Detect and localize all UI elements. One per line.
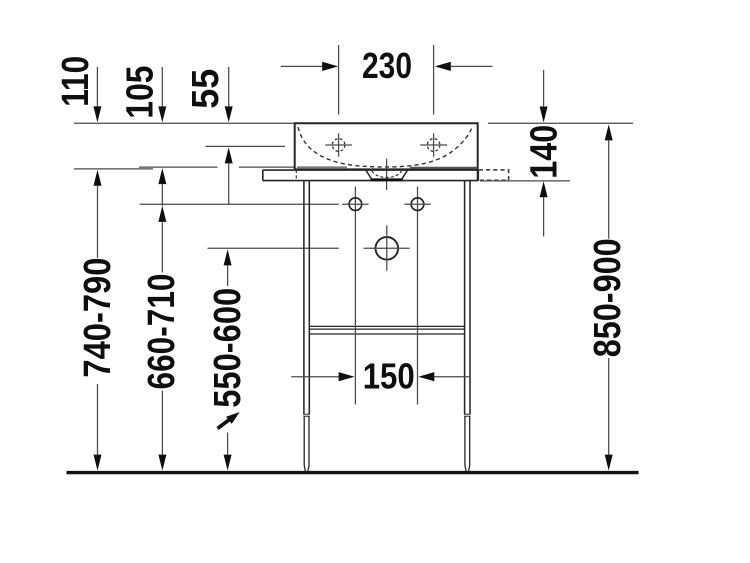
- tap deck reference line (55): [206, 145, 285, 147]
- dim 150 left arrow: [291, 372, 354, 381]
- basin outline: [295, 123, 478, 180]
- svg-text:550-600: 550-600: [207, 288, 249, 408]
- hidden basin edge left through plate: [295, 170, 297, 180]
- right leg: [464, 181, 471, 471]
- basin bottom reference line (110): [74, 168, 153, 170]
- basin inner floor edge left: [297, 166, 347, 168]
- left leg: [303, 181, 310, 471]
- dim 105 down arrow: [158, 67, 166, 122]
- svg-text:740-790: 740-790: [77, 258, 119, 378]
- svg-text:140: 140: [523, 125, 565, 179]
- svg-text:105: 105: [119, 66, 161, 119]
- mounting hole reference line (660-710): [140, 203, 339, 205]
- dim 660-710 bottom arrow: [158, 391, 166, 471]
- ground line: [67, 471, 639, 474]
- dim 230 right arrow: [435, 62, 493, 71]
- dim 110 up arrow / 740-790 top arrow: [94, 170, 102, 258]
- dim 850-900 top arrow: [605, 124, 613, 238]
- mounting hole left: [342, 198, 368, 211]
- dim 110 down arrow: [93, 67, 101, 122]
- drain hole circle: [364, 225, 410, 270]
- tap hole left: [325, 133, 352, 157]
- shelf rail: [309, 326, 464, 334]
- svg-text:55: 55: [185, 69, 227, 109]
- svg-text:230: 230: [362, 45, 412, 86]
- top reference line left segment: [74, 122, 295, 124]
- mounting hole right: [404, 198, 430, 211]
- dim 550-600 top arrow: [224, 249, 232, 286]
- dim 740-790 bottom arrow: [94, 384, 102, 471]
- svg-text:110: 110: [55, 56, 97, 107]
- dim 150 right arrow: [418, 372, 470, 381]
- dim 55 down arrow: [225, 67, 233, 122]
- drain trapezoid: [366, 170, 407, 180]
- dim 660-710 top arrow: [158, 206, 166, 273]
- hidden reference line (105): [139, 166, 295, 168]
- svg-text:150: 150: [363, 356, 415, 397]
- dim 550-600 diagonal arrow: [218, 412, 240, 429]
- dim 850-900 bottom arrow: [605, 358, 613, 471]
- drain height reference line (550-600): [208, 247, 339, 249]
- basin inner bowl hidden curve: [298, 127, 472, 167]
- dim 140 up arrow: [540, 181, 548, 236]
- dim 140 top arrow: [540, 70, 548, 123]
- svg-text:850-900: 850-900: [587, 238, 629, 357]
- console bottom reference line (140): [480, 180, 570, 182]
- dim 105 up arrow: [158, 168, 166, 206]
- tap hole right: [420, 133, 447, 157]
- console plate dashed extension: [479, 170, 509, 180]
- dim 230 left arrow: [281, 62, 339, 71]
- top reference line right segment: [488, 122, 633, 124]
- tap hole centerline ticks above basin: [338, 45, 340, 115]
- dim 550-600 bottom arrow: [224, 433, 232, 471]
- dim 55 up arrow: [225, 147, 233, 204]
- mounting hole centerline right: [417, 187, 419, 405]
- svg-text:660-710: 660-710: [141, 274, 183, 390]
- mounting hole centerline left: [354, 187, 356, 405]
- basin inner floor edge right: [410, 167, 477, 169]
- drain centerline upper: [386, 159, 388, 190]
- console plate: [263, 170, 479, 181]
